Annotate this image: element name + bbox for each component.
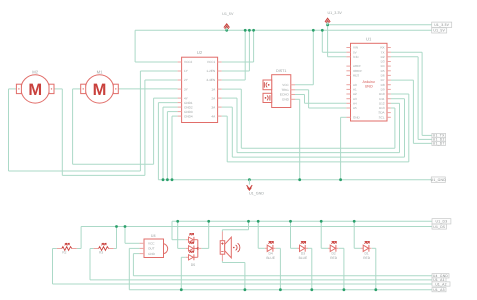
wire supply bus lower xyxy=(81,226,432,228)
svg-text:2Y: 2Y xyxy=(184,78,188,82)
svg-text:RED: RED xyxy=(363,256,371,260)
svg-text:A2: A2 xyxy=(353,92,357,96)
wire U2 3A to U1 D11 xyxy=(222,106,233,108)
LED array D5 xyxy=(186,233,202,266)
junction 5V bus / U2 VCC1 xyxy=(252,29,255,32)
svg-text:RX: RX xyxy=(380,46,384,50)
svg-text:1Y: 1Y xyxy=(184,69,188,73)
svg-text:4Y: 4Y xyxy=(184,96,188,100)
wire speaker bottom to bottom bus xyxy=(221,261,223,263)
junction LED bus / D5 led2 xyxy=(176,220,179,223)
junction LED bus / D5 common xyxy=(207,220,210,223)
net label U1_3.3V xyxy=(432,22,452,27)
wire D2 anode feed xyxy=(320,221,322,248)
wire D1 cathode to bottom bus xyxy=(372,247,376,249)
photoresistor R3 xyxy=(94,243,114,254)
svg-text:U1_A2: U1_A2 xyxy=(435,282,447,286)
wire DIST1 TRIG to U1 A5 xyxy=(295,89,309,91)
svg-text:VCC1: VCC1 xyxy=(207,60,216,64)
wire U2 1Y to M2 left xyxy=(140,70,177,72)
svg-text:A3: A3 xyxy=(353,97,357,101)
wire U1 GND pin to GND bus xyxy=(341,116,347,118)
wire R3 left to row xyxy=(90,248,94,250)
wire 5V bus xyxy=(135,29,432,31)
svg-text:D5: D5 xyxy=(381,69,385,73)
svg-text:SDA: SDA xyxy=(378,111,384,115)
junction lower bus / U4 VCC xyxy=(124,225,127,228)
wire LED bus upper xyxy=(172,220,432,222)
photoresistor R2 xyxy=(57,243,77,254)
svg-text:U1_3.3V: U1_3.3V xyxy=(434,23,449,27)
junction GND bus / U2 GND4 xyxy=(171,178,174,181)
LED D2 RED xyxy=(328,242,339,260)
wire D5 led1 anode xyxy=(171,221,173,239)
junction LED bus / speaker top xyxy=(247,220,250,223)
svg-text:D4: D4 xyxy=(381,64,385,68)
svg-text:3Y: 3Y xyxy=(184,87,188,91)
net label U1_5V xyxy=(432,28,447,33)
wire U2 3Y to M1 right xyxy=(118,88,177,90)
junction bottom bus / D2 cathode xyxy=(343,288,346,291)
wire D5 led3 anode to bottom bus xyxy=(181,256,186,258)
svg-text:M2: M2 xyxy=(32,70,38,75)
svg-text:GND1: GND1 xyxy=(184,101,193,105)
wire speaker top to upper bus xyxy=(248,221,250,229)
svg-text:U2: U2 xyxy=(197,50,203,55)
svg-text:GND: GND xyxy=(282,98,290,102)
junction GND bus / U1 GND pin xyxy=(339,178,342,181)
svg-text:U1_D3: U1_D3 xyxy=(436,220,448,224)
svg-text:TX: TX xyxy=(381,50,385,54)
svg-text:5V: 5V xyxy=(353,50,357,54)
svg-text:M1: M1 xyxy=(97,70,103,75)
svg-text:3.3v: 3.3v xyxy=(353,55,359,59)
wire U4 OUT to bottom bus xyxy=(129,247,139,249)
wire U2 GND3 to GND bus xyxy=(167,111,177,113)
svg-text:R3: R3 xyxy=(99,251,103,255)
wire U2 1-2EN to 5V bus xyxy=(222,70,250,72)
wire U2 4A to U1 D10 xyxy=(222,115,228,117)
svg-text:DIST1: DIST1 xyxy=(276,69,286,73)
junction LED bus / D1 anode xyxy=(353,220,356,223)
svg-text:D9: D9 xyxy=(381,88,385,92)
net label U1_A1 xyxy=(432,278,446,282)
wire DIST1 ECHO to U1 A4 xyxy=(295,94,305,96)
wire D5 common cathode to upper bus xyxy=(201,247,208,249)
svg-text:VIN: VIN xyxy=(353,46,358,50)
svg-text:U1_GND: U1_GND xyxy=(249,191,264,195)
LED D4 BLUE xyxy=(265,242,276,260)
svg-text:BLUE: BLUE xyxy=(299,256,308,260)
svg-text:D5: D5 xyxy=(191,263,196,267)
net label U1_TX xyxy=(432,133,446,137)
power symbol U1_3.3V xyxy=(325,11,342,25)
junction LED bus / D3 anode xyxy=(289,220,292,223)
junction bottom bus / speaker bottom xyxy=(244,288,247,291)
wire D2 cathode to bottom bus xyxy=(339,247,344,249)
svg-text:3-4EN: 3-4EN xyxy=(206,78,215,82)
svg-text:M: M xyxy=(93,81,107,99)
sensor U4 xyxy=(140,234,168,258)
svg-text:ECHO: ECHO xyxy=(280,93,290,97)
svg-text:VCC2: VCC2 xyxy=(184,60,193,64)
junction GND bus / DIST1 GND xyxy=(298,178,301,181)
wire U2 VCC1 to 5V bus xyxy=(222,61,254,63)
wire U2 3-4EN to 5V bus xyxy=(222,79,246,81)
svg-text:Arduino: Arduino xyxy=(363,80,375,84)
wire U1 5V pin to 5V bus xyxy=(321,30,323,52)
wire D1 anode feed xyxy=(353,221,355,248)
power symbol U1_5V xyxy=(222,12,234,30)
junction GND bus / U1_GND symbol xyxy=(248,178,251,181)
junction GND bus / U2 GND2 xyxy=(162,178,165,181)
svg-text:D2: D2 xyxy=(381,55,385,59)
wire U2 2A to U1 D12 xyxy=(222,97,237,99)
junction 5V bus / U2 1-2EN xyxy=(248,29,251,32)
svg-text:AREF: AREF xyxy=(353,64,361,68)
wire U1 TX to label xyxy=(391,51,422,53)
svg-text:D11: D11 xyxy=(379,97,385,101)
wire D3 cathode to bottom bus xyxy=(307,247,312,249)
wire DIST1 VCC to 5V bus xyxy=(295,84,313,86)
junction bottom bus / D5 led3 xyxy=(180,288,183,291)
wire U4 VCC to lower bus xyxy=(124,227,126,244)
junction bottom bus / D4 cathode xyxy=(279,288,282,291)
net label U1_A3 xyxy=(432,288,446,292)
junction LED bus / D2 anode xyxy=(320,220,323,223)
svg-text:U1_5V: U1_5V xyxy=(433,29,445,33)
svg-text:GND: GND xyxy=(353,115,361,119)
svg-text:U1_3.3V: U1_3.3V xyxy=(328,11,343,15)
wire U1 3.3V pin to 3.3V line xyxy=(327,25,329,57)
ultrasonic sensor DIST1 xyxy=(263,69,295,108)
svg-text:D7: D7 xyxy=(381,78,385,82)
net label U1_D2 xyxy=(432,137,446,141)
motor M1 xyxy=(81,70,119,104)
net label U1_D7 xyxy=(432,141,446,145)
svg-text:U1_5V: U1_5V xyxy=(222,12,234,16)
wire U4 GND to row xyxy=(133,253,139,255)
junction bottom bus / D1 cathode xyxy=(374,288,377,291)
wire U2 GND2 to GND bus xyxy=(163,106,178,108)
svg-text:U1_A3: U1_A3 xyxy=(433,288,445,292)
wire D5 led2 anode xyxy=(177,221,179,248)
svg-text:IOREF: IOREF xyxy=(353,69,362,73)
svg-text:SCL: SCL xyxy=(379,115,385,119)
svg-text:GND4: GND4 xyxy=(184,114,193,118)
svg-text:TRIG: TRIG xyxy=(281,88,289,92)
wire R3 right to lower bus xyxy=(114,248,117,250)
wire 5V bus drop to U2 VCC2 xyxy=(134,30,136,62)
svg-text:VCC: VCC xyxy=(148,242,155,246)
wire 3.3V line xyxy=(328,24,432,26)
wire R2 left to row xyxy=(53,248,57,250)
svg-text:RED: RED xyxy=(330,256,338,260)
junction 5V bus / DIST1 VCC xyxy=(312,29,315,32)
svg-text:D10: D10 xyxy=(379,92,385,96)
svg-text:U1_D7: U1_D7 xyxy=(433,142,445,146)
net label U1_GND xyxy=(431,177,447,183)
net label U1_D3 xyxy=(432,219,451,224)
wire U2 GND4 to GND bus xyxy=(172,115,178,117)
wire D4 cathode to bottom bus xyxy=(276,247,281,249)
junction GND bus / U2 GND3 xyxy=(166,178,169,181)
junction 3.3V line / U1_3.3V symbol xyxy=(326,24,329,27)
svg-text:U1: U1 xyxy=(366,36,372,41)
LED D3 BLUE xyxy=(297,242,308,260)
svg-text:D3: D3 xyxy=(381,60,385,64)
junction 5V bus / U1_5V symbol xyxy=(225,29,228,32)
junction bottom bus / D3 cathode xyxy=(310,288,313,291)
svg-text:OUT: OUT xyxy=(148,247,155,251)
LED D1 RED xyxy=(361,242,372,260)
svg-text:BLUE: BLUE xyxy=(266,256,275,260)
svg-text:VCC: VCC xyxy=(282,83,289,87)
ground symbol U1_GND xyxy=(247,180,265,196)
motor driver U2 xyxy=(178,50,222,122)
svg-text:GND2: GND2 xyxy=(184,105,193,109)
svg-text:GND: GND xyxy=(148,252,156,256)
net label U1_A2 xyxy=(432,282,450,286)
junction lower bus / R3 right xyxy=(115,225,118,228)
svg-text:A4: A4 xyxy=(353,101,357,105)
svg-text:U1_D5: U1_D5 xyxy=(433,225,445,229)
wire U1 D2 to label xyxy=(391,56,418,58)
svg-text:D6: D6 xyxy=(381,74,385,78)
motor M2 xyxy=(16,70,54,104)
junction 5V bus / U1 5V pin xyxy=(321,29,324,32)
svg-text:U4: U4 xyxy=(151,234,156,238)
svg-text:1-2EN: 1-2EN xyxy=(206,69,215,73)
wire U2 1A to U1 D13 xyxy=(222,88,242,90)
svg-text:D12: D12 xyxy=(379,101,385,105)
wire U1 D7 to label xyxy=(391,79,414,81)
svg-text:A5: A5 xyxy=(353,106,357,110)
net label U4_GND xyxy=(432,274,449,278)
svg-text:M: M xyxy=(28,81,42,99)
svg-text:D13: D13 xyxy=(379,106,385,110)
svg-text:UNO: UNO xyxy=(365,85,373,89)
wire D3 anode feed xyxy=(290,221,292,248)
svg-text:GND3: GND3 xyxy=(184,110,193,114)
junction LED bus / D4 anode xyxy=(257,220,260,223)
wire U2 4Y to M1 left xyxy=(154,97,178,99)
wire GND bus xyxy=(158,179,431,181)
wire D4 anode feed xyxy=(257,221,259,248)
wire U2 GND1 to GND bus xyxy=(158,102,177,104)
wire DIST1 GND to GND bus xyxy=(295,98,300,100)
speaker SPK1 xyxy=(220,232,240,262)
svg-text:R2: R2 xyxy=(62,251,66,255)
svg-text:RES: RES xyxy=(353,74,359,78)
Arduino UNO U1 xyxy=(346,36,390,121)
wire U2 2Y to M2 right xyxy=(145,79,178,81)
svg-text:D8: D8 xyxy=(381,83,385,87)
svg-text:A0: A0 xyxy=(353,83,357,87)
net label U1_D5 xyxy=(432,224,446,229)
junction 5V bus / U2 3-4EN xyxy=(244,29,247,32)
svg-text:U1_GND: U1_GND xyxy=(431,178,447,182)
svg-text:A1: A1 xyxy=(353,88,357,92)
